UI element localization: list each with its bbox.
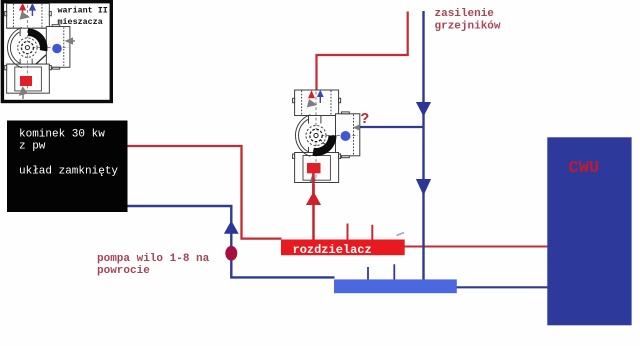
blue dot (center valve) <box>341 131 351 141</box>
valve lever line (box variant) <box>36 55 46 64</box>
gray arrow (center valve top) <box>307 99 318 107</box>
svg-text:CWU: CWU <box>569 159 600 178</box>
svg-text:?: ? <box>361 112 370 128</box>
pipe: red riser rozdzielacz to valve <box>312 184 315 240</box>
pipe: red rozdzielacz to CWU <box>405 245 549 247</box>
svg-text:układ zamknięty: układ zamknięty <box>19 166 118 178</box>
navy tick 2 above bar <box>393 264 395 279</box>
svg-text:powrocie: powrocie <box>97 265 150 277</box>
wariant box frame <box>2 2 111 102</box>
svg-text:grzejników: grzejników <box>435 21 501 33</box>
arrowhead up on red riser <box>306 192 321 206</box>
svg-text:wariant II: wariant II <box>58 6 108 16</box>
gray arrow (box valve bottom) <box>19 86 28 96</box>
navy tick 1 above bar <box>367 267 369 280</box>
gray arrow (center valve bottom) <box>309 174 317 182</box>
red tick 2 above rozdzielacz <box>371 225 373 240</box>
pipe: navy main riser (grzejniki return) <box>422 11 424 280</box>
svg-text:zasilenie: zasilenie <box>435 8 495 20</box>
pipe: red supply top (zasilenie grzejnikow down to valve) <box>317 12 408 92</box>
gray arrow (box valve right port) <box>65 37 74 44</box>
manifold blue bar <box>334 279 457 293</box>
arrowhead up on return pipe <box>224 221 239 234</box>
stray light-blue dash artifact <box>397 233 405 236</box>
blue flow arrow (box valve top) <box>29 3 36 11</box>
svg-text:rozdzielacz: rozdzielacz <box>293 243 372 257</box>
red square (center valve) <box>307 163 321 173</box>
svg-text:mieszacza: mieszacza <box>58 17 103 27</box>
pipe: red supply kominek to rozdzielacz <box>128 146 282 239</box>
svg-text:z pw: z pw <box>19 141 46 153</box>
svg-text:pompa wilo 1-8 na: pompa wilo 1-8 na <box>97 253 210 265</box>
blue flow arrow (center valve top) <box>317 90 324 97</box>
valve black arc (center) <box>312 136 336 157</box>
arrowhead down 1 on navy riser <box>416 102 431 117</box>
pipe: navy bar to CWU <box>457 286 549 288</box>
red square (box valve) <box>20 76 32 86</box>
CWU tank box <box>547 137 631 325</box>
blue dot (box valve) <box>52 44 62 54</box>
mixing valve (box variant) body <box>5 3 70 93</box>
pipe: navy return kominek to manifold bar <box>128 206 335 277</box>
mixing valve (center) body <box>293 90 360 183</box>
valve lever dashes (center) <box>320 140 327 147</box>
red flow arrow (box valve top) <box>19 3 26 11</box>
valve black arc (box variant) <box>28 29 47 52</box>
red riser continuation through valve bottom tube <box>312 173 315 197</box>
rozdzielacz red box <box>281 240 405 256</box>
arrowhead down 2 on navy riser <box>416 179 431 196</box>
gray arrow (center valve right port) <box>353 124 360 131</box>
red flow arrow (center valve top) <box>308 90 315 98</box>
pump wilo (dark red ellipse) <box>225 246 237 261</box>
kominek black box <box>7 121 128 213</box>
red tick 1 above rozdzielacz <box>347 224 349 240</box>
svg-text:kominek 30 kw: kominek 30 kw <box>19 129 105 141</box>
gray arrow (box valve top) <box>20 11 31 19</box>
pipe: navy branch riser to valve right port <box>360 126 424 128</box>
